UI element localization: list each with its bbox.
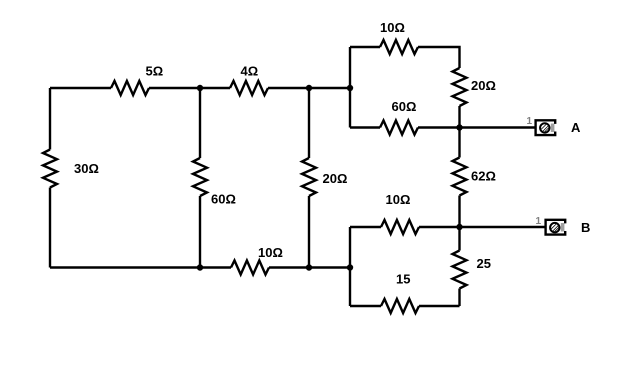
node top bus x350 bbox=[347, 85, 353, 91]
resistor 60ohm A-network bottom bbox=[380, 121, 418, 135]
svg-text:15: 15 bbox=[396, 271, 410, 286]
svg-text:30Ω: 30Ω bbox=[74, 161, 99, 176]
svg-text:10Ω: 10Ω bbox=[380, 20, 405, 35]
wire 20ohm rail bottom bbox=[308, 196, 310, 268]
resistor 60ohm mid rail bbox=[193, 158, 207, 196]
wire node A to terminal A bbox=[460, 126, 535, 128]
resistor 25 B-network right bbox=[453, 251, 467, 289]
node bottom bus x200 bbox=[197, 264, 203, 270]
svg-text:B: B bbox=[581, 220, 590, 235]
wire A-network right vertical lower bbox=[458, 106, 460, 128]
wire 62ohm rail top bbox=[458, 128, 460, 158]
svg-text:10Ω: 10Ω bbox=[258, 245, 283, 260]
node bottom bus x350 bbox=[347, 264, 353, 270]
wire top bus seg3 bbox=[268, 87, 350, 89]
svg-text:62Ω: 62Ω bbox=[471, 169, 496, 184]
wire bottom bus seg2 bbox=[269, 266, 350, 268]
resistor 30ohm bbox=[43, 150, 57, 188]
resistor 4ohm bbox=[230, 81, 268, 95]
node B junction bbox=[456, 224, 462, 230]
svg-text:4Ω: 4Ω bbox=[241, 64, 259, 79]
node top bus x200 bbox=[197, 85, 203, 91]
node bottom bus x309 bbox=[306, 264, 312, 270]
svg-text:60Ω: 60Ω bbox=[392, 99, 417, 114]
wire B-network top branch right bbox=[419, 226, 460, 228]
resistor 10ohm B-network top bbox=[381, 220, 419, 234]
wire node B to terminal B bbox=[460, 226, 545, 228]
wire A-network top branch left bbox=[350, 46, 380, 48]
svg-text:A: A bbox=[571, 120, 581, 135]
wire A-network bottom branch right bbox=[418, 126, 460, 128]
wire top bus seg1 bbox=[50, 87, 111, 89]
wire 20ohm rail top bbox=[308, 88, 310, 158]
resistor 20ohm A-network right bbox=[453, 68, 467, 106]
node top bus x309 bbox=[306, 85, 312, 91]
resistor 5ohm bbox=[111, 81, 149, 95]
resistor 20ohm mid rail bbox=[302, 158, 316, 196]
wire 60ohm rail bottom bbox=[199, 196, 201, 268]
svg-text:20Ω: 20Ω bbox=[471, 78, 496, 93]
terminal B connector bbox=[546, 218, 566, 235]
wire A-network top branch right bbox=[418, 47, 460, 68]
svg-text:5Ω: 5Ω bbox=[146, 64, 164, 79]
wire B-network top branch left bbox=[350, 226, 381, 228]
wire B-network right vertical top bbox=[458, 227, 460, 251]
wire bottom bus seg1 bbox=[50, 266, 231, 268]
resistor 10ohm bottom bus bbox=[231, 261, 269, 275]
svg-text:25: 25 bbox=[477, 256, 491, 271]
wire B-network right vertical bottom bbox=[458, 289, 460, 307]
svg-text:20Ω: 20Ω bbox=[323, 171, 348, 186]
svg-text:1: 1 bbox=[527, 116, 533, 127]
wire 62ohm rail bottom bbox=[458, 196, 460, 228]
svg-text:60Ω: 60Ω bbox=[211, 192, 236, 207]
svg-text:10Ω: 10Ω bbox=[386, 192, 411, 207]
wire A-network left vertical bbox=[349, 47, 351, 128]
wire left rail top bbox=[49, 88, 51, 150]
svg-text:1: 1 bbox=[536, 216, 542, 227]
node A junction bbox=[456, 124, 462, 130]
resistor 10ohm A-network top bbox=[380, 40, 418, 54]
wire left rail bottom bbox=[49, 188, 51, 268]
wire B-network left vertical bbox=[349, 227, 351, 306]
terminal A connector bbox=[536, 118, 556, 135]
wire B-network bottom branch right bbox=[419, 305, 460, 307]
wire 60ohm rail top bbox=[199, 88, 201, 158]
resistor 62ohm bbox=[453, 158, 467, 196]
resistor 15 B-network bottom bbox=[381, 299, 419, 313]
wire B-network bottom branch left bbox=[350, 305, 381, 307]
wire A-network bottom branch left bbox=[350, 126, 380, 128]
wire top bus seg2 bbox=[149, 87, 230, 89]
